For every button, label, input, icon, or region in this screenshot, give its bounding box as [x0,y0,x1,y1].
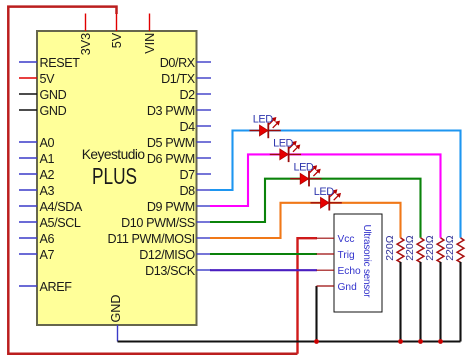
pin VIN (top) [143,14,157,54]
board U1 Keyestudio PLUS [37,31,197,325]
svg-text:A7: A7 [40,248,55,262]
LED D4 [311,186,342,211]
sensor pin Vcc [317,234,355,245]
pin D4 (right) [179,120,211,134]
wire D11 to LED4 to R1 (orange) [210,203,401,238]
junction at ground bus x=420.5 [418,339,423,344]
svg-text:A3: A3 [40,184,55,198]
svg-text:D9 PWM: D9 PWM [147,200,195,214]
pin D11 PWM/MOSI (right) [107,232,211,246]
pin RESET (left) [19,56,80,70]
svg-text:PLUS: PLUS [92,165,137,190]
svg-text:Echo: Echo [338,266,362,277]
resistor R3 220&#937; [424,235,444,341]
svg-text:D3 PWM: D3 PWM [147,104,195,118]
svg-text:LED: LED [314,186,334,198]
pin D12/MISO (right) [139,248,211,262]
pin D7 (right) [179,168,211,182]
svg-text:Ultrasonic sensor: Ultrasonic sensor [361,225,372,299]
pin D6 PWM (right) [147,152,211,166]
svg-text:D7: D7 [179,168,195,182]
pin GND (left) [19,104,67,118]
svg-text:A5/SCL: A5/SCL [40,216,81,230]
svg-text:3V3: 3V3 [79,33,93,55]
sensor pin Trig [317,250,356,261]
resistor R1 220&#937; [384,235,404,341]
pin AREF (left) [19,280,72,294]
svg-text:LED: LED [273,137,293,149]
LED D3 [290,162,321,187]
svg-text:A1: A1 [40,152,55,166]
svg-text:D5 PWM: D5 PWM [147,136,195,150]
svg-text:D8: D8 [179,184,195,198]
pin D13/SCK (right) [145,264,211,278]
pin D10 PWM/SS (right) [121,216,211,230]
svg-text:D2: D2 [179,88,195,102]
wire ground bus (black) [118,340,461,342]
svg-text:220Ω: 220Ω [404,235,416,261]
pin A2 (left) [19,168,54,182]
pin A6 (left) [19,232,54,246]
svg-text:LED: LED [294,162,314,174]
pin D1/TX (right) [161,72,211,86]
svg-text:Vcc: Vcc [338,234,355,245]
resistor R2 220&#937; [404,235,424,341]
LED D2 [270,137,301,162]
svg-text:AREF: AREF [40,280,73,294]
ultrasonic sensor U2 [334,214,382,312]
svg-text:D6 PWM: D6 PWM [147,152,195,166]
svg-text:A4/SDA: A4/SDA [40,200,83,214]
svg-text:A2: A2 [40,168,55,182]
svg-text:Keyestudio: Keyestudio [82,147,146,162]
pin GND (left) [19,88,67,102]
wire 5V branch to sensor Vcc [298,238,318,354]
pin A0 (left) [19,136,54,150]
junction at ground bus x=316.5 [314,339,319,344]
wire D12 to sensor Trig (green) [210,253,317,255]
pin D3 PWM (right) [147,104,211,118]
svg-text:GND: GND [40,104,67,118]
pin D9 PWM (right) [147,200,211,214]
svg-text:GND: GND [109,295,123,323]
svg-text:D0/RX: D0/RX [160,56,196,70]
svg-text:220Ω: 220Ω [444,235,456,261]
pin GND (bottom) [109,295,123,342]
junction at ground bus x=440.5 [438,339,443,344]
svg-text:D11 PWM/MOSI: D11 PWM/MOSI [107,232,194,246]
pin A7 (left) [19,248,54,262]
svg-text:Gnd: Gnd [338,282,358,293]
wire sensor Gnd to ground bus [315,286,317,342]
svg-text:RESET: RESET [40,56,81,70]
wire 5V power net (top pin 5V to left edge, bottom edge, up to sensor Vcc) [8,7,297,354]
pin A4/SDA (left) [19,200,83,214]
svg-text:GND: GND [40,88,67,102]
svg-text:220Ω: 220Ω [424,235,436,261]
wire D9 to LED2 to R3 (magenta) [210,154,441,237]
pin D5 PWM (right) [147,136,211,150]
svg-text:D13/SCK: D13/SCK [145,264,196,278]
svg-text:A0: A0 [40,136,55,150]
svg-text:220Ω: 220Ω [384,235,396,261]
pin D0/RX (right) [160,56,211,70]
pin A3 (left) [19,184,54,198]
pin D2 (right) [179,88,211,102]
svg-text:VIN: VIN [143,33,157,54]
pin 3V3 (top) [79,14,93,56]
LED D1 [250,114,281,139]
pin A1 (left) [19,152,54,166]
svg-text:A6: A6 [40,232,55,246]
junction at ground bus x=400.5 [398,339,403,344]
wire D10 to LED3 to R2 (green) [210,179,421,238]
pin 5V (top) [110,14,124,49]
svg-text:5V: 5V [40,72,56,86]
wire D13 to sensor Echo (purple) [210,269,317,271]
pin D8 (right) [179,184,211,198]
svg-text:D10 PWM/SS: D10 PWM/SS [121,216,195,230]
resistor R4 220&#937; [444,235,464,341]
svg-text:D4: D4 [179,120,195,134]
svg-text:D1/TX: D1/TX [161,72,196,86]
svg-text:Trig: Trig [338,250,356,261]
pin A5/SCL (left) [19,216,81,230]
svg-text:D12/MISO: D12/MISO [139,248,195,262]
wire D8 to LED1 to R4 (cyan) [210,131,461,238]
svg-text:LED: LED [253,114,273,126]
pin 5V (left) [19,72,55,86]
sensor pin Echo [317,266,362,277]
svg-text:5V: 5V [110,32,124,48]
sensor pin Gnd [317,282,358,293]
